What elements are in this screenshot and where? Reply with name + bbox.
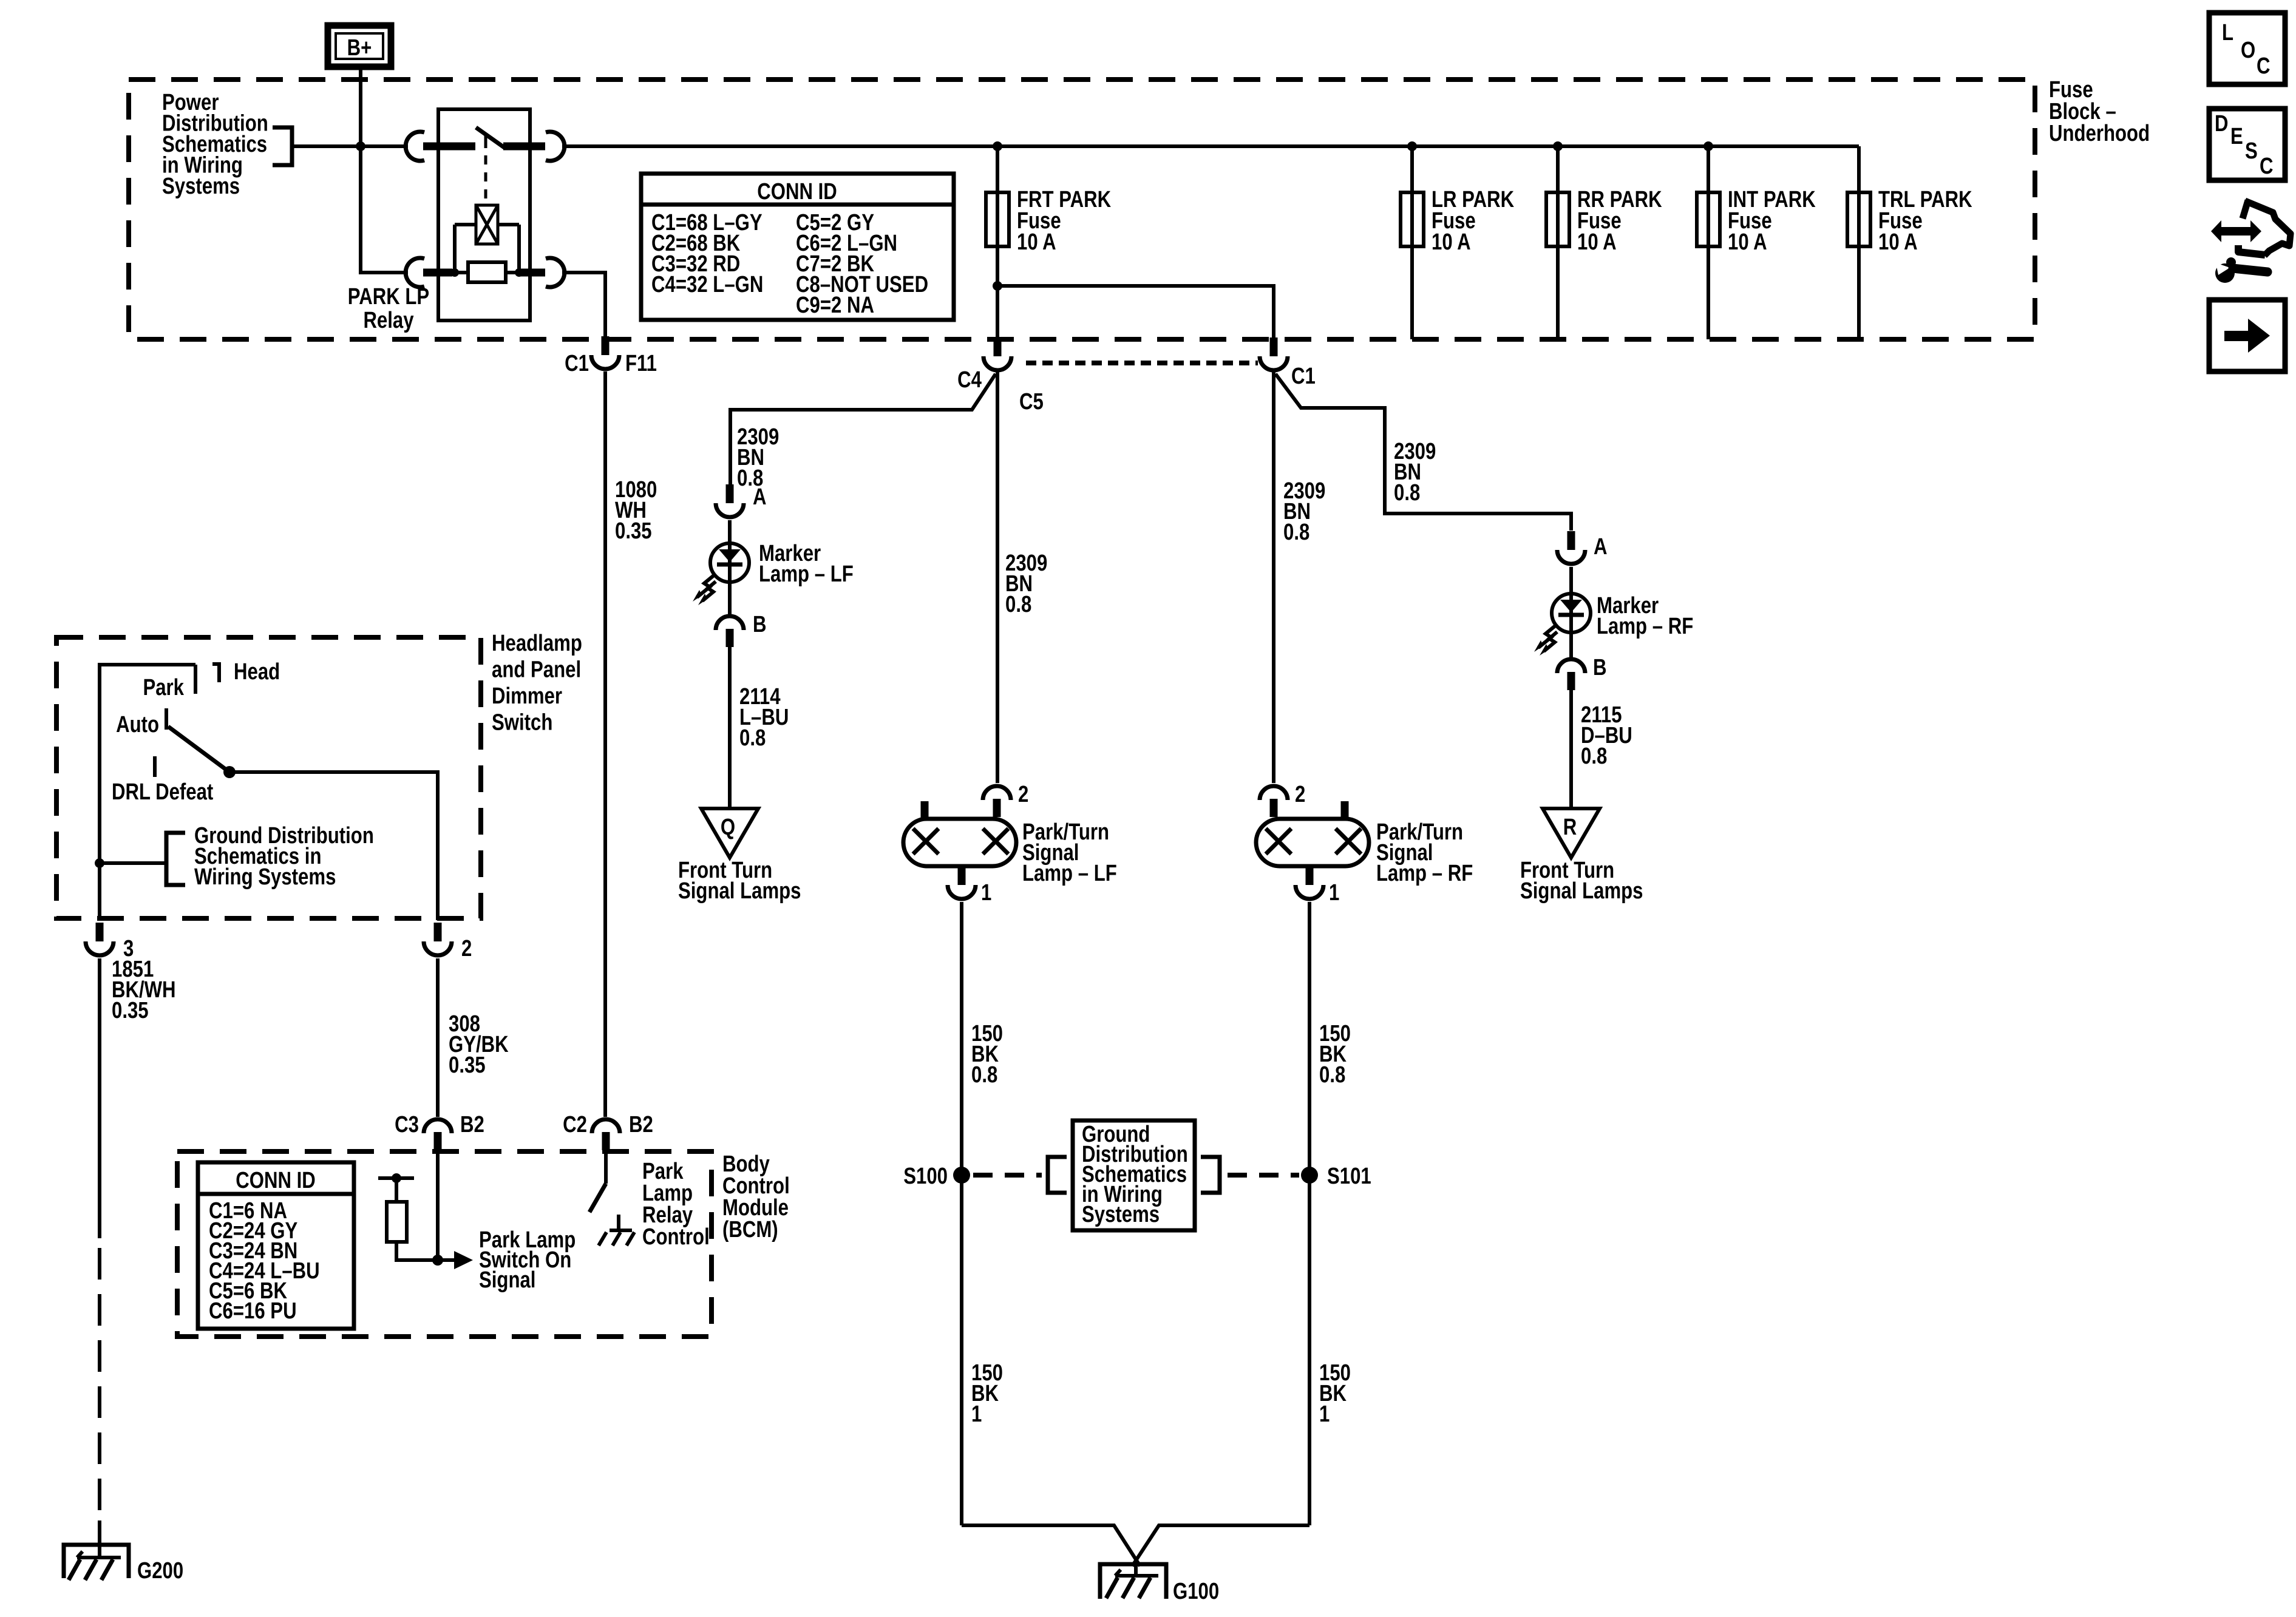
svg-text:Systems: Systems — [1082, 1202, 1160, 1227]
connector C4 C5 — [994, 337, 1002, 356]
svg-text:C4=32 L–GN: C4=32 L–GN — [651, 272, 763, 297]
wire wiper to connector 2 — [229, 772, 438, 920]
headlamp dimmer switch dashed box — [56, 637, 481, 918]
svg-text:Signal: Signal — [479, 1267, 535, 1293]
connector 1 RF — [1306, 866, 1314, 885]
svg-text:G100: G100 — [1173, 1579, 1219, 1604]
park lamp switch on arrow — [438, 1258, 454, 1262]
ground G100 — [1100, 1564, 1166, 1599]
service icon double arrow — [2211, 220, 2261, 242]
wire bracket to relay — [292, 144, 408, 148]
svg-text:10 A: 10 A — [1017, 229, 1056, 255]
svg-text:B: B — [753, 612, 767, 637]
svg-text:Relay: Relay — [363, 308, 414, 333]
svg-text:0.8: 0.8 — [1394, 480, 1420, 506]
relay resistor — [468, 262, 506, 282]
node B+ bus junction — [356, 141, 365, 151]
svg-text:and Panel: and Panel — [492, 657, 581, 683]
svg-text:0.8: 0.8 — [1581, 744, 1607, 769]
switch wiper blade — [168, 727, 229, 772]
relay bottom-left connector — [406, 258, 424, 287]
wire 308 down to BCM C3 — [436, 958, 440, 1117]
svg-text:DRL Defeat: DRL Defeat — [112, 779, 214, 805]
ground distribution box — [1073, 1120, 1195, 1230]
svg-text:1: 1 — [1329, 880, 1339, 906]
wire FRT branch to C1 — [997, 286, 1274, 339]
svg-text:Lamp – LF: Lamp – LF — [1022, 861, 1117, 886]
svg-text:2: 2 — [461, 936, 472, 961]
wire 1851 dashed — [98, 1248, 101, 1520]
wire C3 into BCM — [436, 1150, 440, 1260]
marker lamp LF — [693, 543, 749, 605]
svg-text:Lamp – LF: Lamp – LF — [759, 561, 854, 587]
svg-text:Signal Lamps: Signal Lamps — [678, 878, 801, 904]
fuse block underhood dashed box — [129, 80, 2035, 339]
wire B+ to coil pin — [361, 146, 408, 273]
svg-text:10 A: 10 A — [1728, 229, 1767, 255]
connector 3 — [96, 923, 104, 941]
svg-text:G200: G200 — [137, 1558, 183, 1584]
auto contact — [165, 708, 168, 730]
svg-text:S: S — [2245, 138, 2258, 164]
svg-text:C5: C5 — [1019, 389, 1044, 415]
svg-text:0.8: 0.8 — [1283, 520, 1309, 545]
dashed S100 to bracket — [973, 1173, 1042, 1178]
TRL PARK fuse — [1857, 146, 1861, 339]
svg-text:Auto: Auto — [116, 712, 159, 737]
svg-text:O: O — [2241, 38, 2255, 63]
svg-text:R: R — [1563, 815, 1577, 840]
svg-text:C: C — [2257, 53, 2271, 79]
relay top-right connector — [546, 132, 565, 161]
svg-text:Head: Head — [234, 659, 280, 685]
svg-text:S100: S100 — [903, 1164, 948, 1189]
svg-text:C6=16 PU: C6=16 PU — [209, 1298, 297, 1324]
svg-text:1: 1 — [1319, 1402, 1330, 1427]
connector B marker LF — [716, 616, 744, 630]
svg-text:1: 1 — [971, 1402, 982, 1427]
wire C4 down to LF pin2 — [996, 371, 999, 783]
connector 2 RF — [1260, 786, 1288, 800]
svg-text:L: L — [2222, 20, 2233, 46]
svg-text:0.8: 0.8 — [739, 725, 766, 751]
bracket left — [1048, 1157, 1067, 1193]
wire 1851 to G200 — [98, 1520, 101, 1558]
relay control blade — [589, 1184, 606, 1212]
svg-text:Q: Q — [721, 815, 735, 840]
svg-text:(BCM): (BCM) — [722, 1217, 778, 1242]
svg-text:Control: Control — [642, 1224, 710, 1250]
svg-text:B2: B2 — [460, 1112, 484, 1137]
bracket ground dist switch — [166, 833, 185, 885]
svg-text:C: C — [2260, 154, 2274, 179]
FRT PARK fuse — [996, 146, 999, 339]
LOC icon — [2209, 13, 2285, 84]
svg-text:2: 2 — [1295, 782, 1305, 807]
service icon wrench — [2215, 257, 2267, 283]
INT PARK fuse — [1707, 146, 1710, 339]
relay link dashed — [484, 155, 487, 204]
svg-text:10 A: 10 A — [1432, 229, 1471, 255]
svg-text:0.35: 0.35 — [615, 518, 652, 544]
svg-text:0.35: 0.35 — [449, 1053, 486, 1078]
svg-text:F11: F11 — [625, 351, 657, 376]
wire C1 branch to marker RF — [1275, 374, 1571, 531]
connector B marker RF — [1557, 659, 1585, 673]
park contact — [194, 665, 197, 694]
triangle Q front turn — [701, 808, 758, 858]
service icon car outline — [2238, 200, 2291, 256]
svg-text:Signal Lamps: Signal Lamps — [1520, 878, 1643, 904]
svg-text:CONN ID: CONN ID — [757, 179, 837, 205]
relay bottom-right connector — [546, 258, 565, 287]
node switch ground branch — [95, 858, 104, 868]
svg-text:E: E — [2230, 124, 2243, 149]
wire C1 down to RF pin2 — [1272, 371, 1275, 783]
svg-text:Dimmer: Dimmer — [492, 683, 562, 709]
bracket power distribution — [273, 127, 292, 165]
wire to bracket — [100, 861, 165, 865]
wires joining to G100 — [962, 1525, 1309, 1576]
svg-text:C2: C2 — [563, 1112, 587, 1137]
svg-text:0.35: 0.35 — [112, 998, 149, 1023]
park/turn signal lamp RF — [1256, 801, 1369, 866]
dashed bracket to S101 — [1228, 1173, 1299, 1178]
svg-text:A: A — [753, 484, 767, 510]
wire relay to F11 — [562, 273, 605, 339]
switch common wire — [100, 665, 195, 920]
svg-text:Lamp – RF: Lamp – RF — [1376, 861, 1473, 886]
wire C2 into BCM — [604, 1150, 608, 1184]
svg-text:C1: C1 — [565, 351, 589, 376]
LR PARK fuse — [1410, 146, 1414, 339]
relay top-left connector — [406, 132, 424, 161]
park/turn signal lamp LF — [903, 801, 1016, 866]
BCM resistor tee — [378, 1176, 414, 1180]
svg-text:A: A — [1594, 534, 1608, 560]
svg-text:C3: C3 — [395, 1112, 419, 1137]
connector C1 F11 — [602, 336, 610, 355]
BCM internal ground — [599, 1215, 634, 1246]
relay switch blade — [476, 127, 505, 148]
wire 1851 solid — [98, 958, 101, 1238]
svg-text:C4: C4 — [957, 367, 982, 393]
wire B+ down to bus — [359, 67, 362, 146]
svg-text:2: 2 — [1018, 782, 1028, 807]
wire B down RF — [1569, 690, 1573, 808]
svg-text:C9=2 NA: C9=2 NA — [796, 293, 874, 318]
svg-text:C1: C1 — [1291, 364, 1316, 389]
svg-text:CONN ID: CONN ID — [236, 1168, 316, 1193]
bus wire — [562, 144, 1859, 148]
wire B down — [728, 647, 732, 808]
CONN ID table fuse block — [641, 174, 954, 320]
bracket right — [1201, 1157, 1220, 1193]
connector 2 LF — [983, 786, 1011, 800]
svg-text:Switch: Switch — [492, 710, 552, 736]
svg-text:D: D — [2215, 111, 2229, 137]
svg-text:S101: S101 — [1327, 1164, 1371, 1189]
svg-text:Headlamp: Headlamp — [492, 631, 582, 656]
dashed line C5 to C1 — [1026, 361, 1258, 365]
head contact — [212, 664, 219, 682]
svg-text:Systems: Systems — [162, 174, 240, 199]
svg-text:0.8: 0.8 — [1005, 592, 1031, 617]
svg-text:Wiring Systems: Wiring Systems — [194, 864, 336, 890]
svg-text:Park: Park — [143, 675, 184, 700]
svg-text:10 A: 10 A — [1577, 229, 1617, 255]
triangle R front turn — [1543, 808, 1600, 858]
svg-text:1: 1 — [981, 880, 991, 906]
relay top right stub — [503, 143, 545, 151]
connector A marker RF — [1567, 531, 1575, 550]
DESC icon — [2209, 109, 2285, 180]
svg-text:B2: B2 — [629, 1112, 653, 1137]
arrow icon — [2209, 300, 2285, 371]
relay bottom right stub — [519, 269, 545, 277]
wire C4 branch to marker LF — [730, 374, 996, 484]
svg-text:10 A: 10 A — [1878, 229, 1918, 255]
wire A to marker RF — [1569, 567, 1573, 661]
node S100 — [953, 1167, 970, 1184]
wire A to marker lamp LF — [728, 520, 732, 614]
svg-text:0.8: 0.8 — [971, 1062, 997, 1088]
connector C1 front lamps — [1270, 337, 1278, 356]
node FRT branch — [993, 281, 1002, 291]
connector 1 LF — [958, 866, 966, 885]
svg-text:B: B — [1593, 655, 1607, 680]
svg-text:Underhood: Underhood — [2049, 121, 2150, 146]
wire F11 down to BCM C2 — [603, 371, 607, 1117]
DRL defeat contact — [153, 756, 157, 777]
BCM resistor — [387, 1178, 438, 1260]
relay coil — [476, 205, 498, 244]
coil parallel wires — [455, 225, 519, 273]
connector 2 switch — [434, 923, 442, 941]
relay bottom pin stub — [423, 269, 452, 277]
BCM dashed box — [177, 1151, 712, 1337]
connector A marker LF — [726, 484, 734, 503]
marker lamp RF — [1534, 594, 1591, 656]
relay top pin stub — [423, 143, 475, 151]
node S101 — [1301, 1167, 1318, 1184]
svg-text:0.8: 0.8 — [1319, 1062, 1345, 1088]
B+ terminal — [328, 25, 391, 67]
svg-text:Lamp – RF: Lamp – RF — [1597, 614, 1693, 639]
wire RF pin1 to ground joint — [1308, 902, 1311, 1525]
CONN ID table BCM — [198, 1162, 354, 1329]
RR PARK fuse — [1556, 146, 1560, 339]
wire LF pin1 to ground joint — [960, 902, 963, 1525]
PARK LP relay box — [438, 109, 530, 320]
svg-text:B+: B+ — [347, 35, 372, 61]
ground G200 — [64, 1545, 129, 1580]
